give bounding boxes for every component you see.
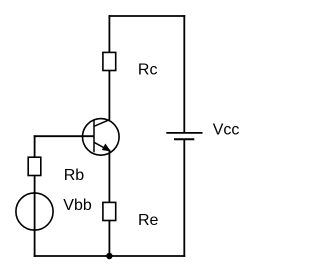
battery Vcc (166, 133, 202, 139)
wire emitter branch lower (Re to bottom rail) (108, 220, 110, 256)
wire left branch (base node down through Rb and Vbb to bottom rail) (34, 135, 36, 257)
resistor Rc (103, 52, 116, 70)
svg-text:Vbb: Vbb (63, 197, 92, 214)
voltage source Vbb (16, 193, 53, 230)
wire top rail (Rc top to Vcc top) (109, 15, 186, 17)
wire collector branch upper (top rail to Rc) (108, 15, 110, 53)
wire bottom rail (Vbb bottom to Vcc bottom) (34, 255, 186, 257)
resistor Rb (28, 157, 41, 175)
wire right branch upper (top rail to Vcc battery) (183, 15, 185, 133)
resistor Re (103, 202, 116, 220)
wire emitter branch (transistor emitter to Re) (108, 150, 110, 204)
wire base (node between Rb and base) (34, 135, 94, 137)
svg-text:Rb: Rb (64, 167, 85, 184)
transistor Q1 (83, 119, 120, 156)
junction dot (emitter branch to bottom rail) (106, 253, 112, 259)
wire right branch lower (battery to bottom rail) (183, 139, 185, 257)
svg-text:Rc: Rc (138, 61, 158, 78)
wire collector branch lower (Rc to transistor collector) (108, 70, 110, 120)
svg-text:Vcc: Vcc (213, 122, 240, 139)
svg-text:Re: Re (138, 212, 159, 229)
